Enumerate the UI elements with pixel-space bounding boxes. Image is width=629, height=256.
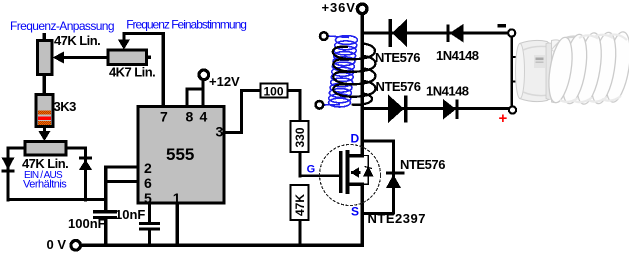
svg-text:8: 8 [186,109,194,125]
wire P3 right leg down [84,147,87,202]
capacitor C2 10nF [139,222,160,246]
MOSFET Q1 channel bar [346,150,350,194]
svg-text:NTE2397: NTE2397 [368,211,426,226]
wire external diode vertical [392,140,395,215]
IC U1 555 body [138,107,224,204]
wire gate node to MOSFET gate [298,174,341,177]
svg-text:47K Lin.: 47K Lin. [54,33,100,48]
svg-text:NTE576: NTE576 [400,157,445,172]
MOSFET Q1 drain tap [349,154,363,158]
diode D1 (left of P3, pointing down) [2,158,15,173]
MOSFET Q1 gate bar [339,151,343,193]
svg-text:D: D [351,132,360,146]
MOSFET Q1 source tap [349,183,363,187]
label minus [497,24,506,27]
terminal +12V [186,70,209,106]
svg-text:S: S [351,205,359,219]
svg-text:+12V: +12V [209,74,240,89]
lamp collar [552,40,562,103]
svg-text:+36V: +36V [322,0,356,15]
wire P3 left leg down [6,147,9,202]
wire main vertical source to rail [360,183,364,247]
wire 100 to 330 [288,89,302,121]
svg-text:555: 555 [166,145,194,164]
terminal lamp plus [509,106,516,113]
wire 47K to rail [298,220,301,246]
wire lamp contact ticks [511,56,520,58]
svg-text:4: 4 [200,109,208,125]
wire top diode row [362,31,509,34]
terminal 0V [71,241,81,251]
wire bottom diode row [362,107,509,110]
terminal T1 primary top [320,32,328,40]
svg-text:4K7 Lin.: 4K7 Lin. [109,65,155,80]
svg-text:NTE576: NTE576 [376,79,421,94]
MOSFET Q1 circle [320,145,381,206]
diode D4 1N4148 (top row, pointing left) [447,24,464,42]
svg-text:+: + [499,110,508,127]
terminal +36V [357,4,367,14]
svg-text:0 V: 0 V [47,237,67,252]
wire loop bottom joining D1 D2 to node pin2/6 [6,198,106,201]
svg-text:G: G [307,164,316,176]
terminal T1 primary bottom [316,101,324,109]
svg-text:3: 3 [216,124,224,140]
svg-text:100: 100 [264,85,284,99]
MOSFET Q1 body arrow [351,167,361,178]
potentiometer P1 47K Lin. (vertical) [38,33,53,96]
wire 330 to gate node [298,152,301,177]
resistor R3 330 [291,121,309,152]
lamp base housing [517,40,551,101]
wire R1 to P3 wiper (arrow down) [38,127,50,142]
diode D3 NTE576 (top row, pointing left) [389,19,407,47]
svg-text:7: 7 [160,109,168,125]
potentiometer P3 47K Lin. EIN/AUS (horizontal) [8,142,87,156]
svg-text:3K3: 3K3 [54,99,77,114]
svg-text:Verhältnis: Verhältnis [23,179,67,191]
diode D7 NTE576 (flyback, pointing up) [386,172,405,189]
svg-text:NTE576: NTE576 [375,50,420,65]
wire main vertical +36V to drain tap [360,14,364,158]
diode D2 (right of P3, pointing up) [79,157,92,170]
svg-text:6: 6 [144,175,152,191]
resistor R2 100 [261,84,288,99]
lamp tube top bend [554,39,584,52]
transformer T1 primary (blue coil) [324,36,358,107]
capacitor C1 100nF [93,210,117,246]
wire pin 3 to resistor 100 [224,89,261,134]
wire lamp feed vertical [511,37,513,107]
svg-text:10nF: 10nF [115,207,145,222]
wire pins 2,6 to node [104,166,138,211]
potentiometer P2 4K7 Lin. (horizontal) [108,50,151,65]
svg-text:100nF: 100nF [68,216,106,231]
svg-text:Frequenz Feinabstimmung: Frequenz Feinabstimmung [126,17,246,31]
svg-text:47K: 47K [293,194,307,216]
diode D6 1N4148 (bottom row, pointing right) [443,99,459,120]
svg-text:330: 330 [293,127,307,147]
MOSFET Q1 body diode [362,156,373,185]
svg-text:1N4148: 1N4148 [436,48,479,63]
wire pin 1 down [176,203,179,246]
wire source to external diode [362,212,394,215]
wire P2 wiper to 555 pin 7 [118,32,165,107]
lamp CFL bulb [516,30,629,106]
svg-text:1N4148: 1N4148 [426,84,469,99]
wire drain to external diode [362,140,394,143]
svg-text:47K Lin.: 47K Lin. [22,156,68,171]
resistor R4 47K [291,185,309,220]
svg-text:Frequenz-Anpassung: Frequenz-Anpassung [10,19,114,33]
lamp spiral turns [545,30,629,106]
wire ground rail [81,244,363,247]
resistor R1 3K3 [36,95,53,127]
wire pin 5 down [148,203,151,222]
svg-text:2: 2 [144,160,152,176]
diode D5 NTE576 (bottom row, pointing right) [388,95,407,124]
terminal lamp minus [508,29,515,36]
transformer T1 secondary (black loops) [333,44,376,105]
wire wiper of P1 from P2 left lead [53,52,109,64]
